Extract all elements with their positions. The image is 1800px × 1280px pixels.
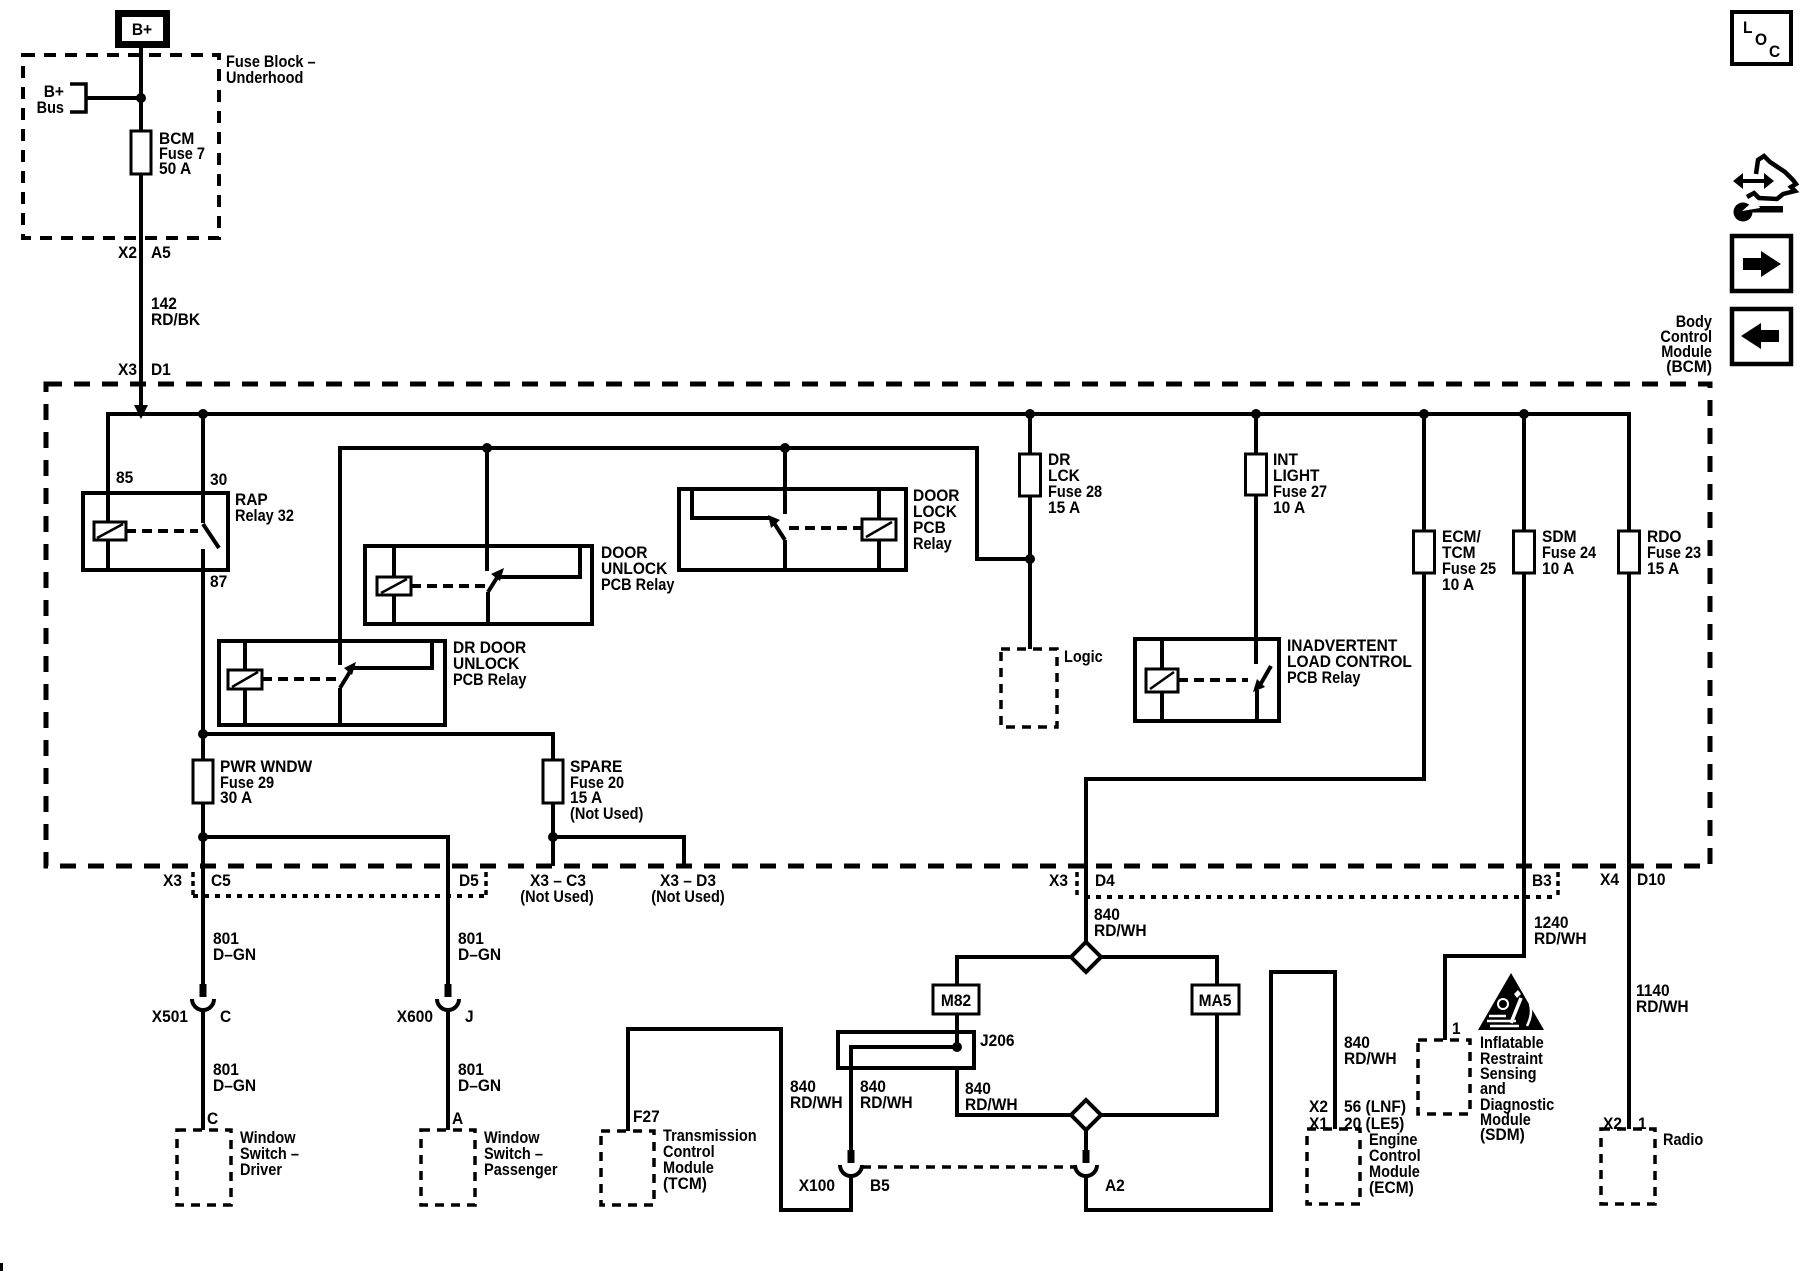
- fuse BCM Fuse 7 50A: [131, 130, 205, 178]
- wire fuse 27 to inadvertent relay: [1254, 495, 1258, 664]
- svg-text:D5: D5: [459, 872, 479, 890]
- DR DOOR blade arrowhead: [344, 662, 356, 675]
- BCM dashed box: [46, 384, 1710, 866]
- svg-text:D–GN: D–GN: [458, 1077, 501, 1095]
- INADVERTENT coil lower lead: [1160, 692, 1164, 721]
- DOOR UNLOCK blade arrowhead: [491, 568, 504, 581]
- svg-text:10 A: 10 A: [1542, 560, 1574, 578]
- svg-text:RD/WH: RD/WH: [1094, 922, 1147, 940]
- wire J206 tap to X100 pin B5: [851, 1047, 957, 1150]
- wire fuse 27 from bus: [1254, 414, 1258, 454]
- svg-text:RD/WH: RD/WH: [1344, 1050, 1397, 1068]
- INADVERTENT switch blade: [1260, 666, 1271, 685]
- relay INADVERTENT LOAD CONTROL box: [1135, 639, 1279, 721]
- SRS warning triangle: [1478, 973, 1544, 1030]
- svg-text:30 A: 30 A: [220, 789, 252, 807]
- wire MA5 to lower splice: [1101, 1014, 1217, 1115]
- connector X100 pin B5 female: [840, 1165, 862, 1176]
- connector X100 pin A2 female: [1075, 1165, 1097, 1176]
- wire label 801 D-GN lower right: [458, 1061, 501, 1095]
- svg-text:X600: X600: [397, 1008, 433, 1026]
- svg-text:C5: C5: [211, 872, 231, 890]
- DOOR LOCK switch output left: [692, 489, 770, 518]
- wire label 801 D-GN upper left: [213, 930, 256, 964]
- forward arrow box: [1732, 236, 1791, 291]
- wire X600 to window switch passenger: [446, 1010, 450, 1130]
- svg-text:RD/WH: RD/WH: [790, 1094, 843, 1112]
- svg-text:RD/WH: RD/WH: [1636, 998, 1689, 1016]
- svg-text:RD/BK: RD/BK: [151, 311, 200, 329]
- node dot fuse28: [1025, 409, 1035, 419]
- svg-text:PCB Relay: PCB Relay: [453, 671, 527, 689]
- fuse ECM/TCM Fuse 25 10A: [1414, 528, 1497, 594]
- wire fuse 24 from bus: [1522, 414, 1526, 531]
- RAP coil wire from bus: [106, 493, 110, 522]
- SDM label: [1480, 1034, 1554, 1144]
- wire fuse 25 from bus: [1422, 414, 1426, 531]
- RAP switch blade: [203, 524, 219, 548]
- Body Control Module (BCM) label: [1660, 313, 1712, 376]
- svg-text:O: O: [1755, 31, 1767, 49]
- svg-text:X3: X3: [118, 361, 137, 379]
- svg-text:D1: D1: [151, 361, 171, 379]
- node dot 87/spare branch: [198, 729, 208, 739]
- Fuse Block - Underhood box: [23, 55, 219, 238]
- DOOR UNLOCK coil lower lead: [392, 595, 396, 624]
- svg-text:85: 85: [116, 469, 133, 487]
- X501 connector male pin: [200, 984, 207, 997]
- DOOR UNLOCK pivot lead: [486, 592, 490, 624]
- svg-text:C: C: [1769, 43, 1780, 61]
- connector X3 left dotted row: [193, 894, 486, 898]
- INADVERTENT pivot lead: [1255, 690, 1259, 721]
- DOOR UNLOCK actuation dashed link: [411, 584, 485, 588]
- node dot logic branch: [1025, 554, 1035, 564]
- X600 connector male pin: [445, 984, 452, 997]
- connector X100 dashed link: [862, 1165, 1074, 1169]
- svg-text:B5: B5: [870, 1177, 890, 1195]
- wire B+ Bus to node: [86, 96, 141, 100]
- wire label 1240 RD/WH: [1534, 914, 1587, 948]
- connector D5 tick: [484, 872, 488, 895]
- main bus wire: [108, 414, 1629, 531]
- B+ terminal: [119, 14, 167, 45]
- node dot fuse27: [1251, 409, 1261, 419]
- wire label 1140 RD/WH: [1636, 982, 1689, 1016]
- X501 connector female: [192, 999, 214, 1010]
- wire fuse 23 to radio: [1627, 573, 1631, 1129]
- svg-text:D–GN: D–GN: [458, 946, 501, 964]
- connector X100 pin B5 male: [848, 1150, 855, 1163]
- svg-text:Relay 32: Relay 32: [235, 507, 294, 525]
- DR DOOR relay coil: [228, 670, 262, 689]
- pin X3 D1: [118, 361, 171, 379]
- svg-text:A: A: [452, 1110, 463, 1128]
- wire branch to spare fuse: [203, 734, 553, 760]
- B+ Bus label: [37, 83, 64, 117]
- svg-text:10 A: 10 A: [1273, 499, 1305, 517]
- svg-text:PCB Relay: PCB Relay: [1287, 669, 1361, 687]
- splice diamond upper: [1071, 942, 1101, 972]
- page edge mark: [0, 1263, 3, 1271]
- TCM label: [663, 1127, 757, 1193]
- DOOR LOCK coil upper lead: [877, 489, 881, 519]
- svg-text:50 A: 50 A: [159, 160, 191, 178]
- DR DOOR fixed contact: [338, 641, 342, 665]
- DOOR UNLOCK switch output: [500, 546, 580, 577]
- fuse SDM Fuse 24 10A: [1514, 528, 1597, 578]
- DOOR UNLOCK relay coil: [377, 577, 411, 595]
- connector X3 left tick: [191, 872, 195, 895]
- ECM pin labels 56 20: [1344, 1098, 1406, 1133]
- DOOR UNLOCK switch blade: [488, 576, 498, 592]
- junction box J206: [838, 1032, 974, 1068]
- svg-text:(ECM): (ECM): [1369, 1179, 1414, 1197]
- svg-text:J206: J206: [980, 1032, 1015, 1050]
- svg-text:Driver: Driver: [240, 1161, 283, 1179]
- fuse RDO Fuse 23 15A: [1619, 528, 1702, 578]
- wire X501 to window switch driver: [201, 1010, 205, 1130]
- wire fuse 25 to D4 and upper splice: [1086, 573, 1424, 942]
- svg-text:X3: X3: [1049, 872, 1068, 890]
- svg-text:Underhood: Underhood: [226, 69, 303, 87]
- svg-text:87: 87: [210, 573, 227, 591]
- svg-text:Logic: Logic: [1064, 648, 1103, 666]
- wire branch to D5: [203, 837, 448, 984]
- wire pin 87 down to fuse 29: [201, 549, 205, 760]
- svg-text:X2: X2: [1309, 1098, 1328, 1116]
- relay RAP Relay 32 box: [83, 493, 228, 570]
- svg-text:56 (LNF): 56 (LNF): [1344, 1098, 1406, 1116]
- SDM box: [1418, 1040, 1470, 1114]
- svg-text:Passenger: Passenger: [484, 1161, 558, 1179]
- svg-text:10 A: 10 A: [1442, 576, 1474, 594]
- wire label 801 D-GN upper right: [458, 930, 501, 964]
- svg-text:15 A: 15 A: [1647, 560, 1679, 578]
- svg-text:X2: X2: [118, 244, 137, 262]
- svg-text:X4: X4: [1600, 871, 1620, 889]
- second bus wire door relays: [340, 448, 1030, 641]
- Fuse Block label: [226, 53, 316, 87]
- svg-text:(Not Used): (Not Used): [520, 888, 593, 906]
- node dot door unlock: [482, 443, 492, 453]
- DOOR LOCK coil lower lead: [877, 540, 881, 570]
- ECM label: [1369, 1131, 1421, 1197]
- svg-text:D–GN: D–GN: [213, 1077, 256, 1095]
- connector B3 tick: [1556, 872, 1560, 895]
- ECM box: [1307, 1129, 1360, 1204]
- Window Switch Passenger label: [484, 1129, 558, 1179]
- svg-text:X501: X501: [152, 1008, 188, 1026]
- svg-text:(TCM): (TCM): [663, 1175, 707, 1193]
- wire label 840 RD/WH at D4: [1094, 906, 1147, 940]
- connector X3 right dotted row: [1085, 895, 1557, 899]
- svg-text:B3: B3: [1532, 872, 1552, 890]
- DR DOOR label: [453, 639, 527, 689]
- wire fuse 24 to SDM: [1445, 573, 1524, 1040]
- TCM box: [601, 1131, 654, 1205]
- connector X100 pin A2 male: [1083, 1150, 1090, 1163]
- svg-text:15 A: 15 A: [1048, 499, 1080, 517]
- DOOR UNLOCK fixed contact: [485, 448, 489, 571]
- DR DOOR coil lower lead: [243, 689, 247, 725]
- svg-text:F27: F27: [633, 1108, 660, 1126]
- fuse INT LIGHT Fuse 27 10A: [1246, 451, 1328, 517]
- svg-text:(Not Used): (Not Used): [570, 805, 643, 823]
- DOOR LOCK actuation dashed link: [789, 526, 862, 530]
- DOOR LOCK label: [913, 487, 960, 553]
- relay DOOR LOCK PCB box: [679, 489, 906, 570]
- svg-text:A5: A5: [151, 244, 171, 262]
- wire label 840 RD/WH mid: [860, 1078, 913, 1112]
- svg-text:(SDM): (SDM): [1480, 1126, 1525, 1144]
- DR DOOR switch blade: [340, 670, 351, 688]
- relay DOOR UNLOCK PCB box: [365, 546, 592, 624]
- LOC box: [1732, 12, 1791, 64]
- splice diamond lower: [1071, 1100, 1101, 1130]
- svg-text:30: 30: [210, 471, 227, 489]
- svg-text:Bus: Bus: [37, 99, 64, 117]
- wire fuse 28 from bus: [1028, 414, 1032, 454]
- Radio pin labels X2 1: [1603, 1115, 1647, 1133]
- svg-text:D10: D10: [1637, 871, 1666, 889]
- svg-text:L: L: [1743, 19, 1753, 37]
- svg-text:D–GN: D–GN: [213, 946, 256, 964]
- hotlink squiggle icon: [1733, 156, 1796, 222]
- Window Switch Driver box: [177, 1130, 231, 1205]
- wire splice to M82: [957, 957, 1071, 985]
- node dot spare branch: [548, 832, 558, 842]
- wire label 840 RD/WH at ECM: [1344, 1034, 1397, 1068]
- wire label 840 RD/WH right: [965, 1080, 1018, 1114]
- arrowhead at bus: [134, 405, 148, 419]
- X600 connector female: [437, 999, 459, 1010]
- svg-text:B+: B+: [132, 21, 152, 39]
- RAP label: [235, 491, 294, 525]
- wire M82 to J206: [955, 1014, 959, 1047]
- DOOR LOCK relay coil: [862, 519, 896, 540]
- DR DOOR actuation dashed link: [262, 677, 338, 681]
- splice pack MA5: [1192, 985, 1239, 1014]
- DR DOOR pivot lead: [338, 688, 342, 725]
- wire spare fuse to X3-C3: [551, 803, 555, 866]
- svg-text:C: C: [207, 1110, 218, 1128]
- INADVERTENT coil upper lead: [1160, 639, 1164, 669]
- svg-text:1: 1: [1452, 1020, 1461, 1038]
- wire splice to MA5: [1101, 957, 1217, 985]
- DOOR LOCK fixed contact from bus: [783, 448, 787, 514]
- node dot C5/D5 branch: [198, 832, 208, 842]
- svg-text:D4: D4: [1095, 872, 1116, 890]
- ECM pin labels X2 X1: [1309, 1098, 1328, 1133]
- wire A2 to ECM: [1086, 972, 1335, 1210]
- node dot pin30: [198, 409, 208, 419]
- wire B+ to BCM bus: [139, 48, 143, 405]
- splice pack M82: [933, 985, 979, 1014]
- DOOR LOCK blade arrowhead: [768, 515, 780, 528]
- Logic box: [1001, 649, 1057, 727]
- svg-text:(Not Used): (Not Used): [651, 888, 724, 906]
- svg-text:M82: M82: [941, 992, 971, 1010]
- fuse DR LCK Fuse 28 15A: [1020, 451, 1103, 517]
- svg-text:MA5: MA5: [1199, 992, 1232, 1010]
- svg-text:X3: X3: [163, 872, 182, 890]
- RAP coil lower lead: [106, 540, 110, 570]
- pin X2 A5: [118, 244, 171, 262]
- DR DOOR switch output: [352, 641, 432, 668]
- svg-text:Radio: Radio: [1663, 1131, 1703, 1149]
- node dot fuse25: [1419, 409, 1429, 419]
- DOOR LOCK switch blade: [774, 523, 785, 540]
- RAP relay coil: [94, 522, 126, 540]
- svg-text:C: C: [220, 1008, 231, 1026]
- X3-D3 label: [651, 872, 724, 906]
- svg-text:RD/WH: RD/WH: [860, 1094, 913, 1112]
- wire J206 to lower splice: [957, 1068, 1071, 1115]
- connector X3 right tick: [1075, 872, 1079, 895]
- node dot J206: [952, 1042, 962, 1052]
- INADVERTENT relay coil: [1146, 669, 1178, 692]
- Window Switch Passenger box: [421, 1130, 475, 1205]
- node dot fuse24: [1519, 409, 1529, 419]
- svg-text:RD/WH: RD/WH: [1534, 930, 1587, 948]
- wire label 142 RD/BK: [151, 295, 200, 329]
- svg-text:A2: A2: [1105, 1177, 1125, 1195]
- wire lower splice to A2: [1084, 1130, 1088, 1150]
- node dot door lock: [780, 443, 790, 453]
- relay DR DOOR UNLOCK PCB box: [219, 641, 445, 725]
- INADVERTENT label: [1287, 637, 1412, 687]
- wire label 840 RD/WH left: [790, 1078, 843, 1112]
- wire fuse29 down through C5 to X501: [201, 803, 205, 984]
- svg-text:PCB Relay: PCB Relay: [601, 576, 675, 594]
- fuse SPARE Fuse 20 15A: [543, 758, 643, 823]
- back arrow box: [1732, 309, 1791, 364]
- DOOR LOCK pivot lead: [783, 540, 787, 570]
- DOOR UNLOCK label: [601, 544, 675, 594]
- DOOR UNLOCK coil upper lead: [392, 546, 396, 577]
- RAP actuation dashed link: [126, 529, 198, 533]
- svg-text:J: J: [465, 1008, 474, 1026]
- wire B5 to TCM F27: [628, 1029, 851, 1210]
- junction dot: [136, 93, 146, 103]
- wire label 801 D-GN lower left: [213, 1061, 256, 1095]
- wire fuse 28 to Logic: [1028, 496, 1032, 649]
- fuse PWR WNDW Fuse 29 30A: [193, 758, 313, 807]
- B+ Bus bracket: [70, 84, 86, 112]
- INADVERTENT blade arrowhead: [1253, 679, 1265, 692]
- RAP fixed contact from pin 30: [201, 414, 205, 523]
- svg-text:X100: X100: [799, 1177, 835, 1195]
- Window Switch Driver label: [240, 1129, 299, 1179]
- Radio box: [1601, 1129, 1655, 1204]
- X3-C3 label: [520, 872, 593, 906]
- wire spare branch to X3-D3: [553, 837, 684, 866]
- INADVERTENT actuation dashed link: [1178, 678, 1248, 682]
- DR DOOR coil upper lead: [243, 641, 247, 670]
- svg-text:Relay: Relay: [913, 535, 952, 553]
- svg-text:RD/WH: RD/WH: [965, 1096, 1018, 1114]
- svg-text:(BCM): (BCM): [1666, 358, 1712, 376]
